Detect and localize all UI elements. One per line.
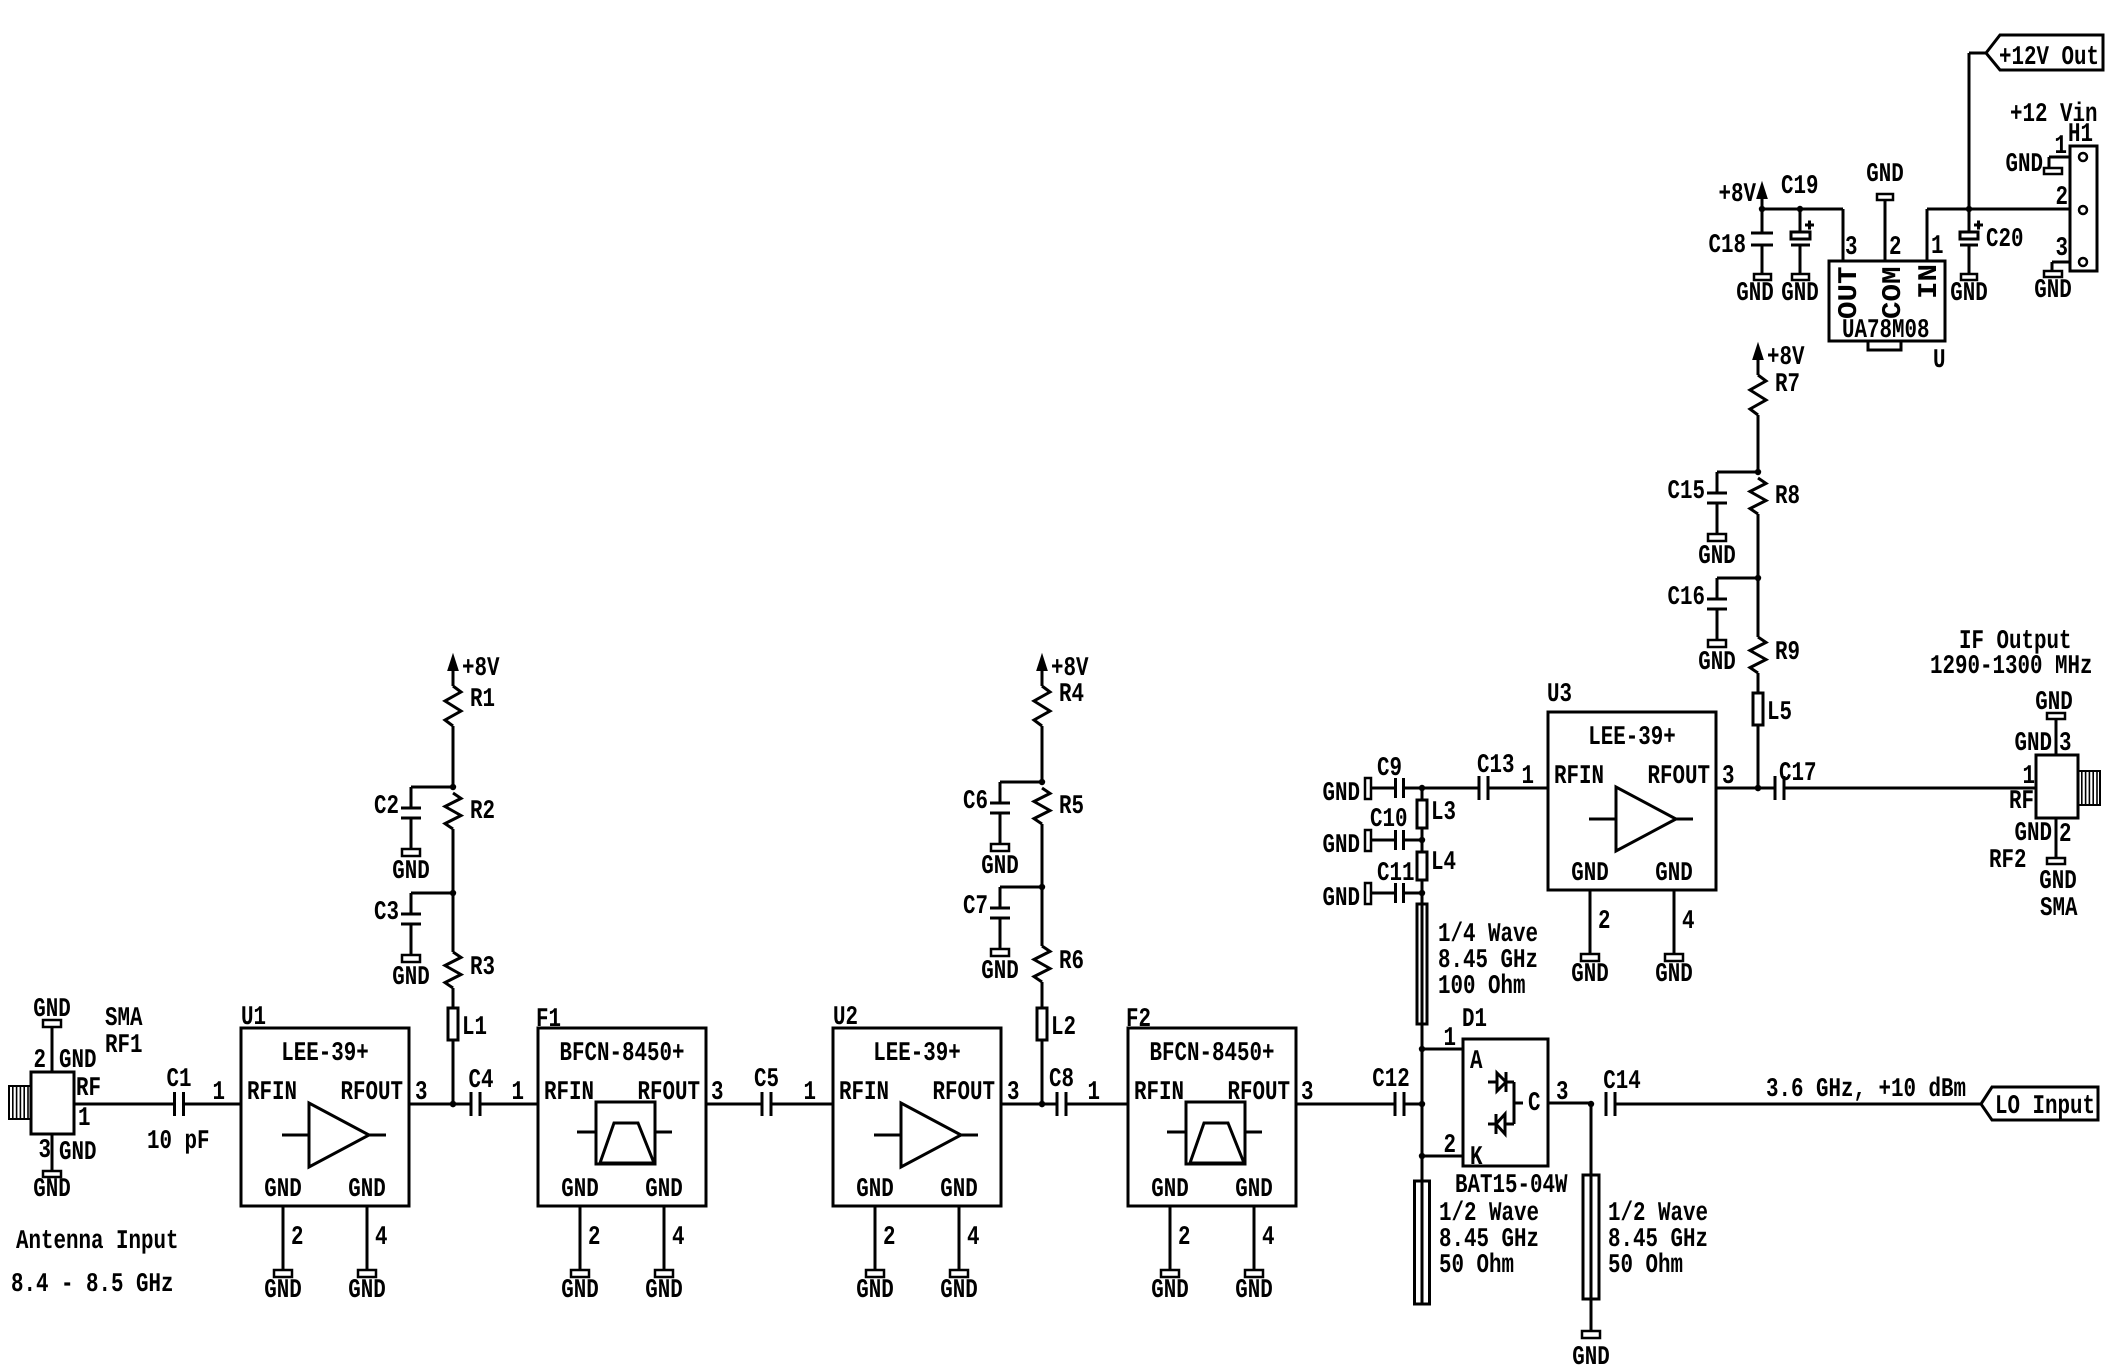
svg-text:C17: C17 (1779, 759, 1817, 789)
svg-text:10 pF: 10 pF (147, 1127, 210, 1157)
svg-text:3.6 GHz, +10 dBm: 3.6 GHz, +10 dBm (1766, 1075, 1966, 1105)
svg-text:U3: U3 (1547, 680, 1572, 710)
svg-text:RFOUT: RFOUT (933, 1078, 996, 1108)
svg-text:50 Ohm: 50 Ohm (1608, 1251, 1683, 1281)
svg-text:C20: C20 (1986, 225, 2024, 255)
svg-text:C1: C1 (167, 1065, 192, 1095)
svg-text:RFIN: RFIN (1134, 1078, 1184, 1108)
svg-text:RF: RF (2009, 787, 2034, 817)
svg-text:GND: GND (1151, 1276, 1189, 1306)
svg-text:LEE-39+: LEE-39+ (873, 1039, 961, 1069)
svg-text:2: 2 (1444, 1131, 1457, 1161)
svg-text:1: 1 (1444, 1024, 1457, 1054)
svg-text:C5: C5 (754, 1065, 779, 1095)
svg-text:2: 2 (1889, 233, 1902, 263)
svg-text:GND: GND (561, 1276, 599, 1306)
svg-text:RFIN: RFIN (1554, 762, 1604, 792)
svg-text:GND: GND (2035, 688, 2073, 718)
svg-text:LO Input: LO Input (1995, 1092, 2095, 1122)
svg-text:GND: GND (856, 1175, 894, 1205)
svg-text:GND: GND (1655, 960, 1693, 990)
svg-text:3: 3 (2056, 234, 2069, 264)
svg-text:GND: GND (392, 963, 430, 993)
svg-text:GND: GND (1323, 831, 1361, 861)
svg-text:GND: GND (645, 1175, 683, 1205)
svg-text:OUT: OUT (1835, 267, 1865, 320)
svg-text:2: 2 (588, 1223, 601, 1253)
svg-text:+8V: +8V (1719, 180, 1757, 210)
svg-text:U1: U1 (241, 1003, 266, 1033)
svg-text:C13: C13 (1477, 751, 1515, 781)
svg-text:IN: IN (1915, 264, 1945, 299)
svg-text:R4: R4 (1059, 680, 1084, 710)
svg-text:1: 1 (804, 1078, 817, 1108)
svg-text:GND: GND (2039, 867, 2077, 897)
svg-text:K: K (1470, 1143, 1483, 1173)
svg-text:GND: GND (1323, 779, 1361, 809)
svg-text:GND: GND (1571, 859, 1609, 889)
svg-text:3: 3 (1007, 1078, 1020, 1108)
svg-text:GND: GND (561, 1175, 599, 1205)
svg-text:R5: R5 (1059, 792, 1084, 822)
svg-text:R3: R3 (470, 953, 495, 983)
svg-text:1: 1 (1088, 1078, 1101, 1108)
svg-text:RFOUT: RFOUT (341, 1078, 404, 1108)
svg-text:+8V: +8V (1767, 343, 1805, 373)
svg-text:U: U (1933, 346, 1946, 376)
svg-text:F2: F2 (1126, 1005, 1151, 1035)
svg-text:1: 1 (512, 1078, 525, 1108)
svg-text:R2: R2 (470, 797, 495, 827)
svg-text:LEE-39+: LEE-39+ (281, 1039, 369, 1069)
svg-text:GND: GND (1235, 1276, 1273, 1306)
svg-text:GND: GND (2015, 819, 2053, 849)
svg-text:C14: C14 (1603, 1067, 1641, 1097)
svg-text:GND: GND (33, 995, 71, 1025)
svg-text:1: 1 (2055, 132, 2068, 162)
svg-text:RFOUT: RFOUT (1648, 762, 1711, 792)
svg-text:GND: GND (856, 1276, 894, 1306)
svg-text:+12 Vin: +12 Vin (2010, 100, 2098, 130)
svg-text:C: C (1528, 1089, 1541, 1119)
svg-text:C11: C11 (1377, 859, 1415, 889)
svg-text:U2: U2 (833, 1003, 858, 1033)
svg-text:A: A (1470, 1047, 1483, 1077)
svg-text:L2: L2 (1051, 1013, 1076, 1043)
svg-text:4: 4 (375, 1223, 388, 1253)
svg-text:RFOUT: RFOUT (638, 1078, 701, 1108)
svg-text:GND: GND (33, 1175, 71, 1205)
svg-text:GND: GND (348, 1276, 386, 1306)
svg-text:GND: GND (1950, 279, 1988, 309)
svg-text:GND: GND (1571, 960, 1609, 990)
svg-text:2: 2 (34, 1046, 47, 1076)
svg-text:R9: R9 (1775, 638, 1800, 668)
svg-text:GND: GND (1323, 884, 1361, 914)
svg-text:D1: D1 (1462, 1005, 1487, 1035)
svg-text:+8V: +8V (462, 654, 500, 684)
svg-text:RFOUT: RFOUT (1228, 1078, 1291, 1108)
svg-text:3: 3 (1845, 233, 1858, 263)
svg-text:3: 3 (415, 1078, 428, 1108)
svg-text:1: 1 (1931, 232, 1944, 262)
svg-text:1: 1 (213, 1078, 226, 1108)
svg-text:C6: C6 (963, 787, 988, 817)
svg-text:COM: COM (1879, 267, 1909, 320)
svg-text:Antenna Input: Antenna Input (16, 1227, 179, 1257)
svg-text:3: 3 (1722, 762, 1735, 792)
svg-text:GND: GND (1655, 859, 1693, 889)
svg-text:2: 2 (1598, 907, 1611, 937)
svg-text:GND: GND (59, 1046, 97, 1076)
svg-text:GND: GND (940, 1175, 978, 1205)
svg-text:RFIN: RFIN (839, 1078, 889, 1108)
svg-text:GND: GND (645, 1276, 683, 1306)
svg-text:C9: C9 (1377, 754, 1402, 784)
svg-text:UA78M08: UA78M08 (1842, 316, 1930, 346)
svg-text:3: 3 (1556, 1078, 1569, 1108)
svg-text:GND: GND (1736, 279, 1774, 309)
svg-text:R1: R1 (470, 685, 495, 715)
svg-text:GND: GND (1235, 1175, 1273, 1205)
svg-text:2: 2 (883, 1223, 896, 1253)
svg-text:GND: GND (1781, 279, 1819, 309)
svg-text:R7: R7 (1775, 370, 1800, 400)
svg-text:C12: C12 (1372, 1065, 1410, 1095)
svg-text:GND: GND (348, 1175, 386, 1205)
svg-text:2: 2 (1178, 1223, 1191, 1253)
svg-text:C2: C2 (374, 792, 399, 822)
svg-text:4: 4 (672, 1223, 685, 1253)
svg-text:C10: C10 (1370, 805, 1408, 835)
svg-text:GND: GND (2034, 276, 2072, 306)
svg-text:L4: L4 (1431, 848, 1456, 878)
svg-text:4: 4 (967, 1223, 980, 1253)
svg-text:4: 4 (1262, 1223, 1275, 1253)
svg-text:R6: R6 (1059, 947, 1084, 977)
svg-text:3: 3 (1301, 1078, 1314, 1108)
svg-text:50 Ohm: 50 Ohm (1439, 1251, 1514, 1281)
svg-text:GND: GND (1151, 1175, 1189, 1205)
svg-text:8.4 - 8.5 GHz: 8.4 - 8.5 GHz (11, 1270, 174, 1300)
svg-text:BFCN-8450+: BFCN-8450+ (560, 1039, 685, 1069)
svg-text:GND: GND (981, 957, 1019, 987)
svg-text:BAT15-04W: BAT15-04W (1455, 1171, 1568, 1201)
svg-text:R8: R8 (1775, 482, 1800, 512)
svg-text:RF2: RF2 (1989, 846, 2027, 876)
svg-text:2: 2 (291, 1223, 304, 1253)
svg-text:GND: GND (1572, 1343, 1610, 1371)
svg-text:+12V Out: +12V Out (1999, 43, 2099, 73)
svg-text:C3: C3 (374, 898, 399, 928)
svg-text:F1: F1 (536, 1005, 561, 1035)
svg-text:C7: C7 (963, 892, 988, 922)
svg-text:GND: GND (59, 1138, 97, 1168)
svg-text:GND: GND (2006, 150, 2044, 180)
svg-text:C16: C16 (1668, 583, 1706, 613)
svg-text:GND: GND (392, 857, 430, 887)
svg-text:GND: GND (1698, 648, 1736, 678)
svg-text:GND: GND (264, 1175, 302, 1205)
svg-text:3: 3 (39, 1136, 52, 1166)
svg-text:1: 1 (1522, 762, 1535, 792)
svg-text:BFCN-8450+: BFCN-8450+ (1150, 1039, 1275, 1069)
svg-text:SMA: SMA (2040, 894, 2078, 924)
svg-text:C18: C18 (1709, 231, 1747, 261)
svg-text:C15: C15 (1668, 477, 1706, 507)
svg-text:LEE-39+: LEE-39+ (1588, 723, 1676, 753)
svg-text:RFIN: RFIN (247, 1078, 297, 1108)
svg-text:GND: GND (981, 852, 1019, 882)
svg-text:C8: C8 (1049, 1065, 1074, 1095)
svg-text:C19: C19 (1781, 172, 1819, 202)
svg-text:GND: GND (940, 1276, 978, 1306)
svg-text:2: 2 (2059, 820, 2072, 850)
svg-text:RFIN: RFIN (544, 1078, 594, 1108)
svg-text:1: 1 (78, 1104, 91, 1134)
svg-text:L5: L5 (1767, 698, 1792, 728)
svg-text:C4: C4 (469, 1066, 494, 1096)
svg-text:3: 3 (711, 1078, 724, 1108)
svg-text:2: 2 (2056, 183, 2069, 213)
svg-text:SMA: SMA (105, 1004, 143, 1034)
svg-text:RF: RF (76, 1074, 101, 1104)
svg-text:GND: GND (2015, 729, 2053, 759)
svg-text:L3: L3 (1431, 798, 1456, 828)
svg-text:GND: GND (264, 1276, 302, 1306)
svg-text:100 Ohm: 100 Ohm (1438, 972, 1526, 1002)
svg-text:RF1: RF1 (105, 1031, 143, 1061)
svg-text:4: 4 (1682, 907, 1695, 937)
svg-text:1290-1300 MHz: 1290-1300 MHz (1930, 652, 2093, 682)
svg-text:GND: GND (1698, 542, 1736, 572)
svg-text:3: 3 (2059, 729, 2072, 759)
svg-text:GND: GND (1866, 160, 1904, 190)
svg-text:L1: L1 (462, 1013, 487, 1043)
